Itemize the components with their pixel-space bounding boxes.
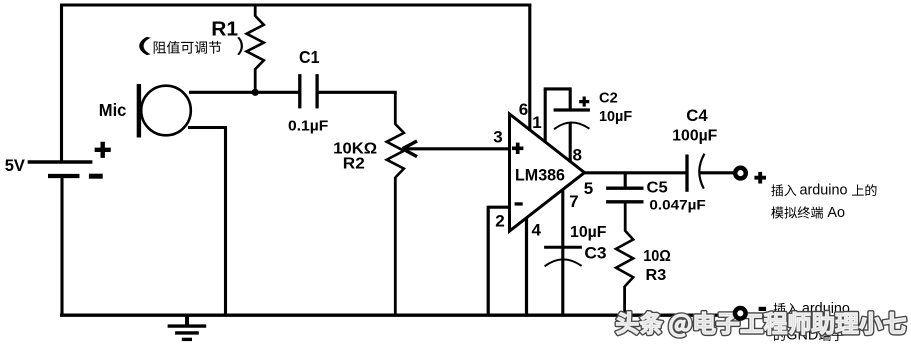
svg-text:2: 2: [495, 212, 504, 231]
svg-text:10Ω: 10Ω: [643, 248, 671, 265]
svg-text:6: 6: [519, 100, 528, 119]
svg-text:0.047µF: 0.047µF: [649, 196, 706, 212]
svg-text:LM386: LM386: [515, 167, 565, 185]
svg-text:Mic: Mic: [99, 100, 127, 120]
svg-text:7: 7: [569, 192, 578, 211]
svg-text:C5: C5: [647, 179, 668, 196]
svg-text:100µF: 100µF: [672, 127, 717, 144]
svg-text:10µF: 10µF: [599, 109, 632, 125]
svg-text:3: 3: [493, 128, 502, 147]
svg-text:C4: C4: [686, 106, 708, 125]
svg-text:C2: C2: [599, 91, 618, 107]
svg-text:C1: C1: [299, 47, 320, 67]
svg-text:R2: R2: [343, 156, 365, 173]
svg-text:8: 8: [573, 145, 582, 164]
svg-text:5V: 5V: [5, 157, 25, 175]
svg-text:arduino: arduino: [800, 183, 848, 199]
svg-text:0.1µF: 0.1µF: [288, 117, 328, 134]
svg-text:10µF: 10µF: [570, 224, 607, 241]
svg-text:R3: R3: [646, 267, 667, 284]
svg-text:R1: R1: [211, 18, 238, 40]
svg-text:C3: C3: [584, 244, 606, 263]
svg-text:4: 4: [532, 221, 542, 240]
svg-text:Ao: Ao: [827, 205, 845, 221]
svg-text:1: 1: [532, 113, 541, 132]
svg-text:5: 5: [584, 179, 593, 198]
